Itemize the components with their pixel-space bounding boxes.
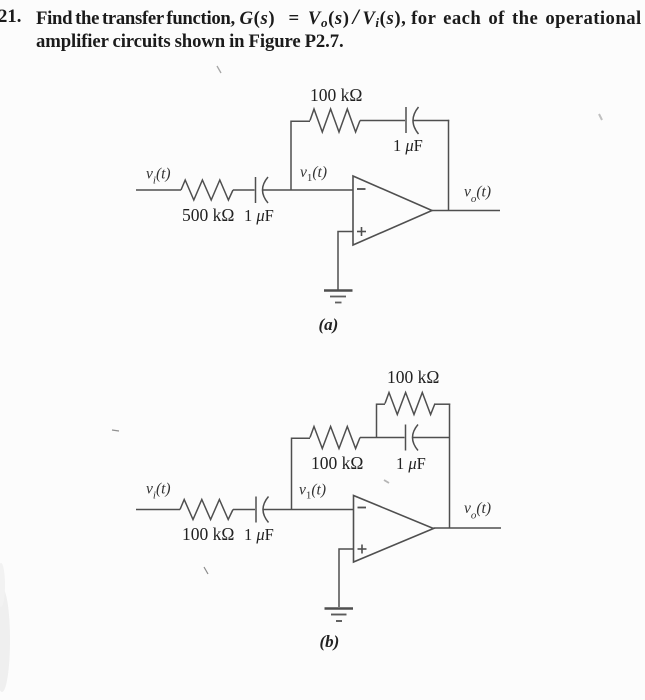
svg-text:1 μF: 1 μF bbox=[393, 136, 423, 155]
svg-text:vo(t): vo(t) bbox=[464, 184, 491, 206]
svg-text:100 kΩ: 100 kΩ bbox=[182, 524, 234, 544]
resistor 500 kΩ (a) bbox=[181, 180, 233, 200]
op-amp inverting input label − (a) bbox=[357, 188, 366, 190]
wire resistor to capacitor (a) bbox=[233, 189, 255, 191]
svg-text:v1(t): v1(t) bbox=[300, 164, 327, 184]
svg-text:vi(t): vi(t) bbox=[146, 166, 171, 187]
wire capacitor to inverting input (b) bbox=[264, 509, 354, 511]
svg-text:1 μF: 1 μF bbox=[244, 525, 274, 544]
op-amp noninverting input label + (b) bbox=[358, 545, 367, 554]
op-amp U2 (b) bbox=[354, 496, 434, 563]
svg-text:(b): (b) bbox=[320, 632, 340, 651]
wire feedback right vertical (b) bbox=[449, 404, 451, 529]
wire input (a) bbox=[136, 189, 181, 191]
svg-text:100 kΩ: 100 kΩ bbox=[310, 85, 362, 105]
op-amp inverting input label − (b) bbox=[358, 507, 367, 509]
wire feedback top-left (a) bbox=[291, 120, 310, 122]
svg-text:500 kΩ: 500 kΩ bbox=[182, 205, 234, 225]
wire input (b) bbox=[136, 509, 180, 511]
wire feedback middle-left (b) bbox=[292, 437, 311, 439]
svg-text:1 μF: 1 μF bbox=[244, 206, 274, 225]
stray scan marks (unlabeled decorative) bbox=[0, 588, 10, 692]
ground (b) bbox=[325, 609, 354, 622]
op-amp noninverting input label + (a) bbox=[357, 227, 366, 236]
wire feedback top-right (a) bbox=[414, 120, 450, 122]
capacitor 1 μF (a input) bbox=[256, 177, 269, 203]
wire capacitor to inverting input (a) bbox=[263, 189, 353, 191]
wire feedback left vertical (b) bbox=[291, 438, 293, 510]
wire noninverting input to ground (a) bbox=[338, 232, 353, 291]
wire parallel branch top-right (b) bbox=[435, 403, 450, 405]
wire feedback middle (a) bbox=[360, 120, 405, 122]
wire feedback left vertical (a) bbox=[290, 121, 292, 191]
svg-text:100 kΩ: 100 kΩ bbox=[387, 367, 439, 387]
wire feedback right vertical (a) bbox=[448, 120, 450, 211]
resistor 100 kΩ feedback (a) bbox=[310, 109, 360, 132]
wire middle branch (b) bbox=[360, 437, 405, 439]
ground (a) bbox=[324, 291, 353, 303]
wire noninverting input to ground (b) bbox=[339, 549, 354, 607]
svg-text:1 μF: 1 μF bbox=[396, 454, 426, 473]
wire parallel branch top-left (b) bbox=[377, 403, 386, 405]
svg-text:vo(t): vo(t) bbox=[464, 500, 491, 522]
capacitor 1 μF (b) bbox=[406, 425, 419, 451]
resistor 100 kΩ parallel (b) bbox=[385, 393, 435, 415]
resistor 100 kΩ input (b) bbox=[180, 500, 233, 520]
capacitor 1 μF input (b) bbox=[256, 497, 269, 523]
wire parallel branch left vertical (b) bbox=[376, 404, 378, 438]
svg-text:vi(t): vi(t) bbox=[146, 481, 171, 502]
svg-text:100 kΩ: 100 kΩ bbox=[311, 453, 363, 473]
wire middle branch right (b) bbox=[413, 437, 450, 439]
capacitor 1 μF feedback (a) bbox=[406, 107, 419, 134]
op-amp U1 (a) bbox=[353, 176, 432, 245]
wire output (b) bbox=[434, 527, 502, 529]
svg-text:v1(t): v1(t) bbox=[299, 482, 326, 502]
resistor 100 kΩ middle (b) bbox=[310, 427, 360, 449]
svg-text:(a): (a) bbox=[319, 315, 339, 334]
wire output (a) bbox=[432, 210, 500, 212]
wire resistor to capacitor (b) bbox=[233, 509, 255, 511]
